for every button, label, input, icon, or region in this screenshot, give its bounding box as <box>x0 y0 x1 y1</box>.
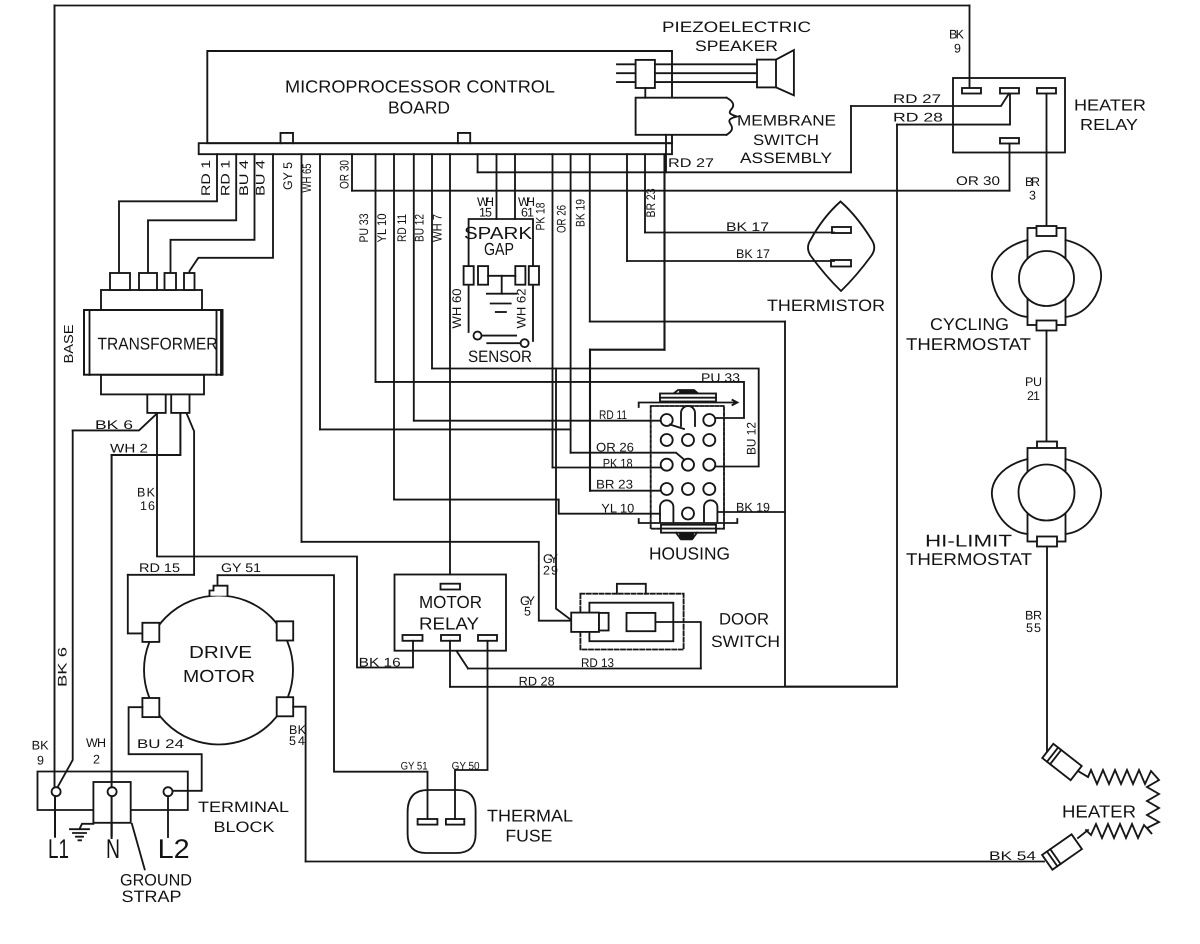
door switch top tab <box>617 584 646 594</box>
wire BK 16 from transformer <box>157 413 413 668</box>
svg-text:MEMBRANE: MEMBRANE <box>737 113 836 130</box>
svg-text:RELAY: RELAY <box>1080 117 1138 134</box>
svg-text:BK 19: BK 19 <box>736 500 770 514</box>
heater relay lug 3 <box>1037 88 1056 94</box>
motor relay lug 1 <box>403 635 423 641</box>
motor relay lug 3 <box>478 635 497 641</box>
wire BK 19 top run <box>590 321 785 323</box>
wire WH 2 through block <box>111 782 113 836</box>
housing bottom cap bar <box>680 534 693 539</box>
wire PK 18 drop <box>552 154 554 467</box>
heater top plug <box>1042 744 1081 780</box>
svg-text:TERMINAL: TERMINAL <box>198 799 289 816</box>
svg-text:RD 27: RD 27 <box>668 156 714 170</box>
thermistor body <box>808 202 874 292</box>
wire OR 30 drop from board <box>351 154 353 191</box>
svg-text:PU 33: PU 33 <box>357 213 371 242</box>
wire OR 30 from relay lug4 <box>1009 144 1011 191</box>
wire OR 26 into housing <box>571 453 684 460</box>
housing top cap <box>673 390 699 394</box>
svg-text:RD 1: RD 1 <box>219 160 233 196</box>
cycling thermostat top lug <box>1037 226 1057 236</box>
spark gap right electrode outer <box>529 266 539 285</box>
housing body dashed box <box>651 406 724 529</box>
svg-text:BR 23: BR 23 <box>644 188 658 217</box>
housing pin r1c3 <box>703 414 715 426</box>
motor right lower terminal <box>277 697 294 716</box>
door switch inner box <box>589 603 673 642</box>
heater relay box <box>953 78 1065 153</box>
svg-text:THERMAL: THERMAL <box>487 807 573 826</box>
svg-text:29: 29 <box>543 563 558 577</box>
transformer bottom pin A <box>147 394 165 413</box>
svg-text:BOARD: BOARD <box>388 98 450 118</box>
svg-text:BK 17: BK 17 <box>726 220 769 234</box>
housing bottom wing line <box>639 519 738 523</box>
svg-text:DRIVE: DRIVE <box>189 642 252 662</box>
svg-text:N: N <box>106 834 120 864</box>
svg-text:15: 15 <box>479 206 492 220</box>
wire BK 9 drop into heater relay <box>969 6 971 88</box>
thermistor lower lug <box>831 260 851 267</box>
wire WH 61 drop to spark gap <box>514 154 516 219</box>
wire OR 30 horizontal run <box>352 190 1010 192</box>
svg-text:BU 24: BU 24 <box>137 737 184 751</box>
housing center pin bullet <box>681 406 695 426</box>
wire RD28 link segment <box>785 686 897 688</box>
sensor circle right <box>521 339 529 347</box>
svg-text:RD 11: RD 11 <box>395 214 409 242</box>
wire YL 10 drop <box>393 154 395 499</box>
wire WH 2 from pin B <box>112 414 181 455</box>
svg-text:BK 17: BK 17 <box>736 247 770 261</box>
wire RD 11 drop <box>413 154 415 421</box>
housing pin r4c1 <box>661 483 673 495</box>
cycling thermostat left wing <box>992 240 1028 317</box>
spark gap left electrode outer <box>464 266 474 285</box>
svg-text:RD 15: RD 15 <box>139 561 180 575</box>
wire PU 21 <box>1046 331 1048 442</box>
svg-text:BASE: BASE <box>61 324 76 363</box>
svg-text:GY 51: GY 51 <box>221 561 261 575</box>
housing pin r2c3 <box>703 434 715 446</box>
terminal block inner section <box>93 782 130 823</box>
wire BK 6 diagonal <box>73 414 157 431</box>
heater relay lug 1 <box>962 88 981 94</box>
wire BR 23 descent <box>589 350 591 491</box>
transformer top shoulder <box>101 290 202 310</box>
spark gap left electrode inner <box>478 266 488 285</box>
svg-text:3: 3 <box>1029 189 1036 203</box>
terminal block outer box <box>38 772 188 811</box>
svg-text:SWITCH: SWITCH <box>753 132 819 149</box>
hi-limit bottom lug <box>1037 537 1057 547</box>
svg-text:MOTOR: MOTOR <box>419 592 482 612</box>
heater bottom plug lead <box>1078 830 1088 838</box>
wire BR 23 into housing <box>590 490 661 492</box>
wire RD 13 from door switch <box>655 622 700 669</box>
sensor right contact line <box>487 342 520 344</box>
hi-limit left wing <box>992 459 1028 534</box>
housing dome r5c3 <box>704 500 717 521</box>
svg-text:OR 30: OR 30 <box>956 174 1000 188</box>
wire GY 50 from relay lug 3 <box>455 641 488 819</box>
wire WH 2 drop <box>111 455 113 836</box>
spark gap center tee <box>501 276 503 294</box>
spark gap bar 3 <box>496 311 506 313</box>
svg-text:FUSE: FUSE <box>505 827 552 846</box>
svg-text:OR 26: OR 26 <box>555 205 569 233</box>
transformer pin 4 <box>184 273 195 290</box>
svg-text:BK: BK <box>949 28 965 42</box>
microprocessor control board outline <box>207 51 672 143</box>
svg-text:THERMISTOR: THERMISTOR <box>767 297 885 315</box>
terminal screw L2 <box>164 787 173 796</box>
wire WH 7 drop to motor relay <box>449 154 451 584</box>
wire BR 55 <box>1046 547 1048 752</box>
svg-text:BR: BR <box>1025 175 1040 189</box>
wire RD 28 bottom run <box>450 686 897 688</box>
housing bottom cap <box>676 533 697 540</box>
svg-text:HEATER: HEATER <box>1074 98 1146 115</box>
wire RD 28 from relay lug 2 <box>449 641 451 687</box>
housing top wing line <box>639 400 738 407</box>
wire YL 10 run to housing <box>394 500 660 514</box>
wire L1 stub <box>54 796 56 837</box>
motor right upper terminal <box>277 621 294 640</box>
svg-text:OR 26: OR 26 <box>596 440 634 454</box>
wire BR 23 jog <box>590 349 665 351</box>
svg-text:WH 60: WH 60 <box>450 288 464 328</box>
cycling thermostat body <box>1028 228 1066 325</box>
hi-limit thermostat top lug <box>1037 442 1057 452</box>
wire RD 15 drop to motor <box>128 575 143 634</box>
housing pin r3c2 <box>682 459 694 471</box>
spark gap center link <box>488 275 515 277</box>
svg-text:BLOCK: BLOCK <box>214 819 275 836</box>
svg-text:GAP: GAP <box>484 239 514 259</box>
wire BK 19 into housing <box>718 511 786 513</box>
wire GY 51 stub <box>217 575 219 585</box>
svg-text:RD 28: RD 28 <box>893 111 943 125</box>
svg-text:OR 30: OR 30 <box>338 160 352 189</box>
cycling thermostat right wing <box>1066 240 1102 317</box>
svg-text:BK: BK <box>32 738 50 752</box>
wire OR 26 drop <box>570 154 572 453</box>
svg-text:L1: L1 <box>48 834 69 864</box>
svg-text:55: 55 <box>1026 621 1041 635</box>
spark gap right electrode inner <box>515 266 525 285</box>
transformer pin 1 <box>110 273 130 290</box>
motor top terminal <box>210 586 228 596</box>
svg-text:9: 9 <box>37 754 44 768</box>
wire BK 19 descent <box>784 322 786 687</box>
housing pin r2c1 <box>661 434 673 446</box>
wire GY 5 horizontal <box>302 542 571 621</box>
housing pin r3c3 <box>703 459 715 471</box>
svg-text:SWITCH: SWITCH <box>711 633 780 651</box>
terminal screw L1 <box>52 787 61 796</box>
svg-text:WH: WH <box>86 736 106 750</box>
ground strap pointer <box>132 824 145 870</box>
piezoelectric speaker body <box>636 60 655 88</box>
wire membrane to RD 27 line <box>665 135 667 173</box>
svg-text:PU 33: PU 33 <box>701 371 740 385</box>
housing bottom plate <box>661 525 716 533</box>
svg-text:PK 18: PK 18 <box>603 456 633 470</box>
svg-text:21: 21 <box>1027 389 1040 403</box>
svg-text:16: 16 <box>140 499 155 513</box>
wire BK 17 lower run <box>627 260 834 262</box>
motor relay box <box>395 575 507 651</box>
svg-text:L2: L2 <box>158 834 190 864</box>
wire WH 15 drop to spark gap <box>496 154 498 219</box>
housing top cap bar <box>680 391 695 395</box>
wire RD 28 into heater relay <box>897 94 1010 125</box>
board standoff tab 1 <box>281 133 294 143</box>
heater top plug lead <box>1078 771 1088 777</box>
wire BR 3 from relay lug3 <box>1046 94 1048 227</box>
motor relay top lug <box>441 584 461 590</box>
svg-text:RD 11: RD 11 <box>599 408 627 422</box>
svg-text:WH 2: WH 2 <box>110 441 148 455</box>
motor left lower terminal <box>142 698 159 717</box>
wire BU 24 from motor <box>129 707 202 791</box>
membrane switch assembly box <box>636 98 727 135</box>
heater bottom plug <box>1042 834 1082 869</box>
wire PU 33 run to housing <box>376 382 745 418</box>
svg-text:BR 23: BR 23 <box>596 478 633 492</box>
svg-text:DOOR: DOOR <box>719 611 769 629</box>
wire BK 54 run <box>306 861 1044 863</box>
svg-text:RD 27: RD 27 <box>893 92 941 106</box>
wire N stub <box>111 823 113 838</box>
transformer right flange <box>217 310 222 375</box>
housing pin r2c2 <box>682 434 694 446</box>
wire PK 18 into housing <box>553 467 661 469</box>
wire WH 65 horizontal <box>320 428 571 430</box>
hi-limit right wing <box>1066 459 1102 534</box>
thermal fuse body <box>408 790 476 853</box>
svg-text:GY 50: GY 50 <box>452 760 480 772</box>
sensor left contact line <box>482 335 517 337</box>
svg-text:9: 9 <box>954 42 961 56</box>
svg-text:YL 10: YL 10 <box>601 502 634 516</box>
wire GY 29 vertical <box>556 369 571 621</box>
wire BU 4 a <box>171 154 255 273</box>
ground symbol lead <box>80 824 94 829</box>
svg-text:GY 5: GY 5 <box>281 162 295 190</box>
door switch center contact <box>627 613 656 631</box>
svg-text:RELAY: RELAY <box>419 614 479 634</box>
hi-limit thermostat body <box>1028 448 1066 542</box>
svg-text:MICROPROCESSOR CONTROL: MICROPROCESSOR CONTROL <box>285 77 555 97</box>
cycling thermostat disc <box>1019 251 1074 306</box>
svg-text:BK 19: BK 19 <box>573 199 587 227</box>
spark gap bar 1 <box>487 293 516 295</box>
wire GY 50 into fuse <box>454 790 456 819</box>
speaker horn flare <box>776 50 794 95</box>
svg-text:61: 61 <box>521 206 534 220</box>
wire RD 27 riser <box>850 106 852 172</box>
door switch left terminal <box>571 613 599 632</box>
speaker right leads <box>655 64 757 82</box>
svg-text:THERMOSTAT: THERMOSTAT <box>906 335 1031 354</box>
wire BK 19 drop <box>589 154 591 321</box>
motor left upper terminal <box>142 623 159 642</box>
wire RD 1 a <box>119 154 217 273</box>
ground symbol bars <box>70 829 89 840</box>
housing link r1 <box>670 425 684 430</box>
svg-text:BU 12: BU 12 <box>744 422 758 455</box>
svg-text:WH 65: WH 65 <box>300 163 314 192</box>
transformer left flange <box>89 310 91 375</box>
wire BK 17 lower drop <box>626 154 628 261</box>
thermistor upper lug <box>832 227 851 233</box>
cycling thermostat bottom lug <box>1037 321 1057 331</box>
svg-text:BK 6: BK 6 <box>56 647 70 687</box>
heater element zigzag <box>1086 770 1159 838</box>
svg-text:BK: BK <box>137 485 156 499</box>
board bottom strip <box>199 143 672 154</box>
transformer bottom pin B <box>171 394 189 413</box>
svg-text:RD 28: RD 28 <box>519 675 555 689</box>
wire BU 12 drop <box>431 154 433 368</box>
wire RD 15 run <box>128 574 194 576</box>
housing pin r5c2 <box>682 508 694 520</box>
svg-text:HEATER: HEATER <box>1062 802 1136 822</box>
svg-text:WH 62: WH 62 <box>514 288 528 328</box>
speaker left lead stubs <box>617 64 636 82</box>
svg-text:CYCLING: CYCLING <box>930 315 1009 334</box>
svg-text:STRAP: STRAP <box>122 888 182 906</box>
wire RD 13 diagonal at motor relay <box>450 641 468 669</box>
membrane torn edge squiggle <box>727 98 738 135</box>
wire BU 12 run to housing <box>432 369 759 467</box>
svg-text:BK 6: BK 6 <box>95 418 133 432</box>
wire speaker to membrane <box>644 88 646 98</box>
spark gap bar 2 <box>491 303 511 305</box>
wire RD 27 to heater relay <box>851 94 1009 107</box>
wire BR 23 drop <box>663 154 665 350</box>
transformer body <box>84 310 223 375</box>
thermal fuse left lug <box>418 819 438 825</box>
svg-text:THERMOSTAT: THERMOSTAT <box>906 550 1032 569</box>
svg-text:BU 4: BU 4 <box>254 160 268 196</box>
wire GY 51 into fuse <box>427 790 429 819</box>
svg-text:5: 5 <box>524 605 531 619</box>
sensor circle left <box>474 332 482 340</box>
wire PU 33 drop <box>375 154 377 382</box>
wire RD 27 horizontal run <box>478 171 851 173</box>
svg-text:ASSEMBLY: ASSEMBLY <box>740 150 832 167</box>
svg-text:WH 7: WH 7 <box>431 214 445 242</box>
wire RD 1 b <box>148 154 236 273</box>
wire BK 6 drop <box>56 430 73 790</box>
wire GY 5 drop from board <box>301 154 303 542</box>
terminal screw N <box>108 787 117 796</box>
heater relay lug 2 <box>1000 88 1019 94</box>
svg-text:YL 10: YL 10 <box>375 213 389 242</box>
wire BK 54 from motor <box>293 707 305 862</box>
motor relay lug 2 <box>441 635 460 641</box>
wire RD 13 run <box>468 668 701 670</box>
wire BK 17 upper drop <box>644 154 646 232</box>
drive motor circle <box>144 596 293 745</box>
speaker horn throat <box>757 60 776 88</box>
svg-text:RD 13: RD 13 <box>581 656 614 670</box>
wire RD 27 drop from board <box>477 154 479 172</box>
housing pin r4c3 <box>703 483 715 495</box>
svg-text:PK 18: PK 18 <box>534 202 548 230</box>
housing top plate <box>660 394 716 402</box>
housing pin r3c1 <box>661 459 673 471</box>
svg-text:2: 2 <box>93 752 100 766</box>
transformer bottom shoulder <box>101 375 204 395</box>
wire RD 28 long riser <box>896 125 898 687</box>
door switch outer box <box>580 594 683 650</box>
housing dome r5c1 <box>660 500 673 521</box>
svg-text:PIEZOELECTRIC: PIEZOELECTRIC <box>662 19 811 36</box>
wire WH 65 drop <box>319 154 321 429</box>
svg-text:BU 12: BU 12 <box>413 214 427 242</box>
wire BU 4 b <box>190 154 274 273</box>
wire GY 51 run <box>218 575 428 819</box>
door switch left terminal small <box>599 613 609 631</box>
wire BK 9 left run <box>54 6 56 789</box>
transformer pin 3 <box>165 273 177 290</box>
svg-text:GY 51: GY 51 <box>401 760 428 772</box>
svg-text:SPEAKER: SPEAKER <box>695 38 778 55</box>
svg-text:SENSOR: SENSOR <box>468 348 532 366</box>
wire BK 9 top run <box>55 5 970 7</box>
wire L2 stub <box>167 796 169 837</box>
svg-text:PU: PU <box>1025 375 1042 389</box>
svg-text:TRANSFORMER: TRANSFORMER <box>98 335 218 354</box>
svg-text:HOUSING: HOUSING <box>649 544 730 564</box>
svg-text:BK 16: BK 16 <box>359 656 401 670</box>
svg-text:MOTOR: MOTOR <box>183 666 255 686</box>
svg-text:BK 54: BK 54 <box>989 849 1036 863</box>
svg-text:RD 1: RD 1 <box>199 160 213 196</box>
svg-text:HI-LIMIT: HI-LIMIT <box>925 532 1012 551</box>
wire RD 15 diagonal from pin B <box>187 414 194 575</box>
hi-limit disc <box>1019 465 1075 521</box>
transformer pin 2 <box>139 273 157 290</box>
svg-text:GROUND: GROUND <box>120 872 192 890</box>
wire BK 17 upper run <box>645 232 834 234</box>
thermal fuse right lug <box>446 819 464 825</box>
svg-text:BU 4: BU 4 <box>237 160 251 196</box>
housing pin r1c1 <box>661 414 673 426</box>
wire RD 11 run to housing <box>414 420 661 422</box>
housing pin r4c2 <box>682 483 694 495</box>
heater relay lug 4 <box>1000 138 1019 144</box>
spark gap box <box>469 219 533 341</box>
board standoff tab 2 <box>458 133 470 143</box>
